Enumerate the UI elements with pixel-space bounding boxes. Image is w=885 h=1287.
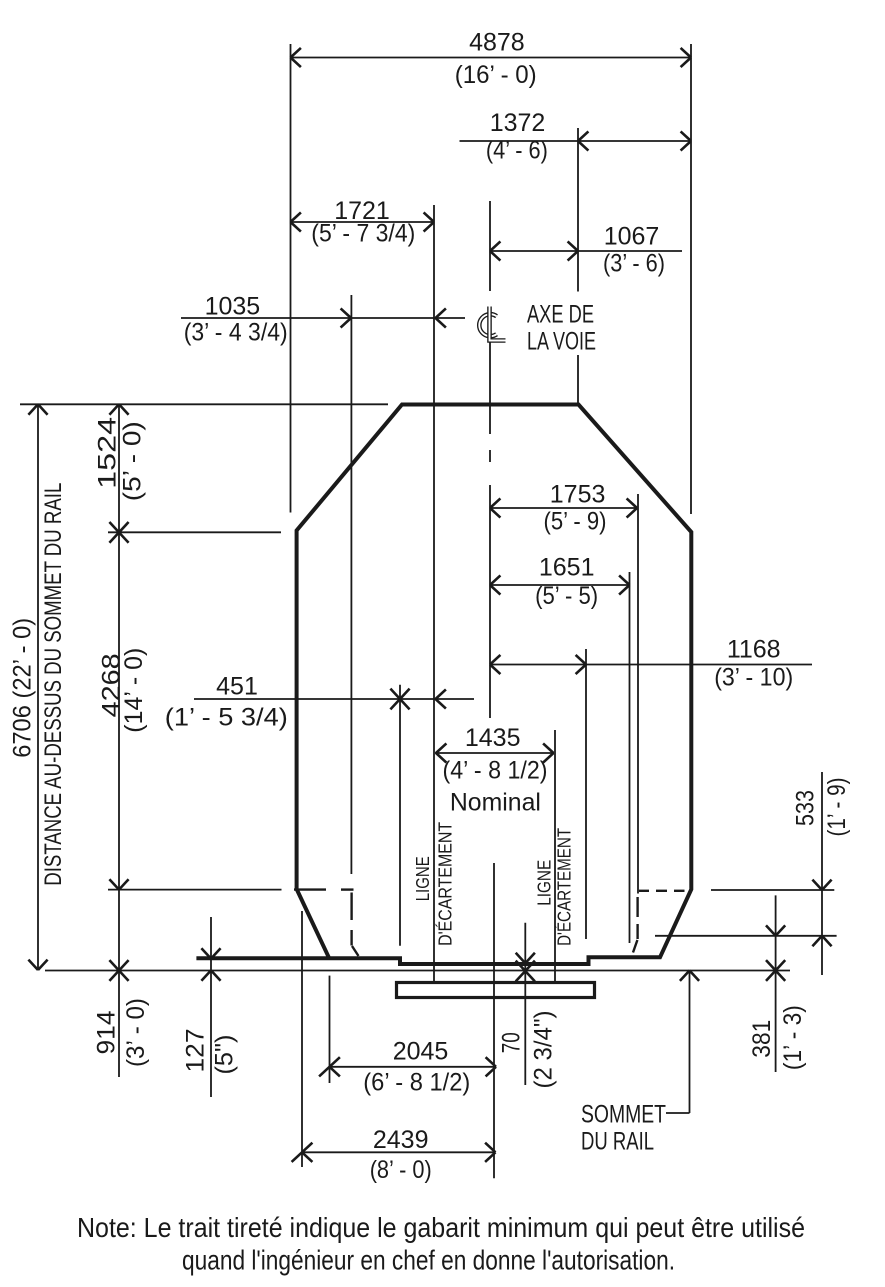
svg-text:6706 (22’ - 0): 6706 (22’ - 0) <box>8 618 36 758</box>
svg-text:SOMMET: SOMMET <box>581 1100 666 1128</box>
svg-text:(5’ - 5): (5’ - 5) <box>535 582 598 610</box>
svg-text:(1’ - 5 3/4): (1’ - 5 3/4) <box>165 704 288 732</box>
svg-text:2439: 2439 <box>373 1126 429 1154</box>
svg-text:DU RAIL: DU RAIL <box>581 1128 654 1156</box>
svg-text:quand l'ingénieur en chef en d: quand l'ingénieur en chef en donne l'aut… <box>182 1245 675 1276</box>
svg-text:1753: 1753 <box>550 481 606 509</box>
svg-text:DISTANCE AU-DESSUS DU SOMMET D: DISTANCE AU-DESSUS DU SOMMET DU RAIL <box>40 483 67 886</box>
svg-text:127: 127 <box>182 1029 210 1073</box>
svg-text:(1’ - 9): (1’ - 9) <box>823 778 851 837</box>
svg-text:(6’ - 8 1/2): (6’ - 8 1/2) <box>363 1069 470 1097</box>
svg-text:AXE DE: AXE DE <box>527 300 594 328</box>
svg-text:1168: 1168 <box>727 636 781 664</box>
svg-text:1651: 1651 <box>539 554 595 582</box>
svg-text:D'ÉCARTEMENT: D'ÉCARTEMENT <box>436 822 456 946</box>
svg-text:1035: 1035 <box>205 293 261 321</box>
svg-text:451: 451 <box>216 673 258 701</box>
svg-text:(5’ - 7 3/4): (5’ - 7 3/4) <box>311 220 415 248</box>
svg-text:2045: 2045 <box>393 1038 449 1066</box>
svg-text:(8’ - 0): (8’ - 0) <box>370 1156 432 1184</box>
svg-text:1067: 1067 <box>604 223 660 251</box>
svg-text:533: 533 <box>792 790 820 826</box>
svg-text:(14’ - 0): (14’ - 0) <box>120 648 148 733</box>
svg-text:381: 381 <box>748 1020 776 1058</box>
svg-text:1372: 1372 <box>490 109 546 137</box>
svg-text:(16’ - 0): (16’ - 0) <box>455 61 537 89</box>
svg-text:(5’ - 9): (5’ - 9) <box>544 508 607 536</box>
svg-text:D'ÉCARTEMENT: D'ÉCARTEMENT <box>555 828 575 946</box>
svg-text:1524: 1524 <box>94 417 122 489</box>
svg-text:LIGNE: LIGNE <box>413 856 433 901</box>
svg-text:Nominal: Nominal <box>450 788 541 816</box>
svg-text:(4’ - 6): (4’ - 6) <box>486 137 548 165</box>
svg-text:(3’ - 10): (3’ - 10) <box>714 664 793 692</box>
svg-text:4878: 4878 <box>469 29 525 57</box>
svg-text:914: 914 <box>93 1010 121 1054</box>
svg-text:70: 70 <box>498 1032 526 1053</box>
svg-text:Note: Le trait tireté indique: Note: Le trait tireté indique le gabarit… <box>77 1212 805 1243</box>
svg-text:(3’ - 6): (3’ - 6) <box>603 250 665 278</box>
svg-text:(3’ - 4 3/4): (3’ - 4 3/4) <box>184 319 288 347</box>
svg-text:(5"): (5") <box>211 1035 239 1075</box>
svg-text:(2 3/4"): (2 3/4") <box>530 1011 558 1089</box>
svg-text:1435: 1435 <box>465 724 521 752</box>
svg-text:(5’ - 0): (5’ - 0) <box>119 421 147 501</box>
svg-text:(3’ - 0): (3’ - 0) <box>122 998 150 1067</box>
svg-text:LIGNE: LIGNE <box>535 860 555 906</box>
svg-text:(4’ - 8 1/2): (4’ - 8 1/2) <box>443 757 548 785</box>
svg-text:(1’ - 3): (1’ - 3) <box>779 1005 807 1070</box>
svg-text:LA VOIE: LA VOIE <box>527 328 596 356</box>
